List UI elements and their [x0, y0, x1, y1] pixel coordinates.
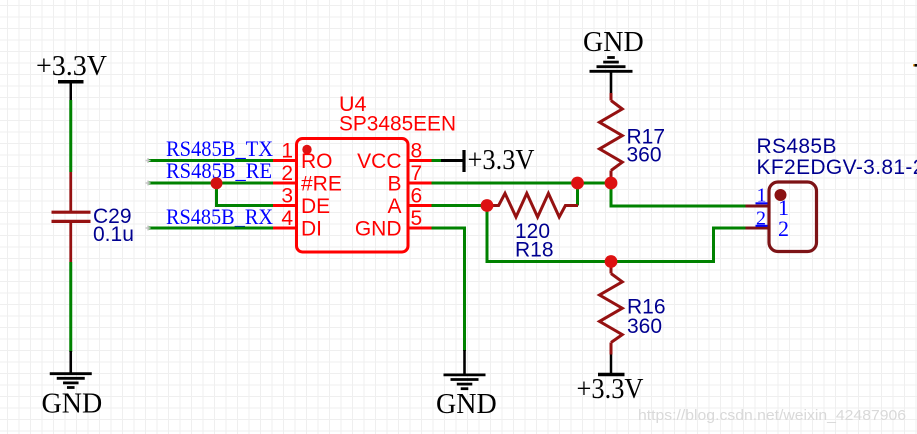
svg-text:DI: DI: [301, 218, 322, 241]
resistor R18 120: [493, 193, 578, 261]
ground (top, above R17): [583, 27, 644, 93]
pin 5 stub: [409, 227, 432, 230]
resistor R16 360: [600, 262, 666, 355]
pin 7 stub: [409, 182, 432, 185]
pin 4 stub: [273, 227, 296, 230]
wire: [69, 262, 72, 352]
svg-text:RO: RO: [301, 150, 333, 173]
svg-text:+3.3V: +3.3V: [577, 374, 644, 405]
connector pin 1 stub: [746, 205, 770, 208]
wire: [148, 227, 274, 230]
wire: [148, 182, 274, 185]
svg-text:7: 7: [411, 162, 423, 185]
svg-text:#RE: #RE: [301, 173, 342, 196]
wire B line down to connector pin 1: [611, 183, 746, 206]
wire end marker: [146, 158, 151, 163]
pin number 1 (outside): [756, 185, 768, 207]
wire: [148, 159, 274, 162]
wire: [576, 183, 579, 206]
ground (bottom left): [42, 351, 103, 420]
svg-text:4: 4: [281, 207, 293, 230]
svg-text:6: 6: [411, 185, 423, 208]
junction B line / R17: [605, 177, 618, 190]
svg-text:2: 2: [778, 216, 789, 241]
svg-text:5: 5: [411, 207, 423, 230]
svg-text:GND: GND: [583, 27, 644, 58]
svg-text:1: 1: [281, 140, 293, 163]
IC U4 SP3485EEN body: [297, 139, 409, 253]
svg-text:SP3485EEN: SP3485EEN: [339, 112, 456, 136]
svg-text:DE: DE: [301, 195, 330, 218]
wire pin5 to ground: [432, 228, 465, 351]
pin number 2 (outside): [756, 208, 768, 230]
wire: [217, 183, 275, 206]
wire end marker: [146, 181, 151, 186]
svg-text:R18: R18: [515, 239, 554, 262]
junction B line / R18: [571, 177, 584, 190]
svg-text:3: 3: [281, 185, 293, 208]
pin-1 indicator dot: [302, 145, 311, 154]
capacitor C29: [52, 172, 134, 262]
wire end marker: [146, 226, 151, 231]
clipped symbol at right edge: [913, 64, 915, 66]
wire pin8 to +3.3V: [432, 159, 442, 162]
svg-text:360: 360: [627, 144, 662, 167]
svg-text:8: 8: [411, 140, 423, 163]
power +3.3V (pin 8): [464, 145, 535, 176]
junction A line / R18: [481, 199, 494, 212]
svg-text:https://blog.csdn.net/weixin_4: https://blog.csdn.net/weixin_42487906: [638, 407, 906, 424]
svg-text:+3.3V: +3.3V: [36, 51, 107, 82]
svg-text:360: 360: [627, 315, 662, 338]
svg-text:+3.3V: +3.3V: [468, 145, 535, 176]
wire lower bus: [487, 206, 746, 262]
svg-text:GND: GND: [355, 218, 402, 241]
svg-text:RS485B_RX: RS485B_RX: [166, 204, 273, 229]
pin 8 stub: [409, 159, 432, 162]
svg-text:GND: GND: [42, 389, 103, 420]
svg-text:GND: GND: [436, 389, 497, 420]
pin 6 stub: [409, 204, 432, 207]
svg-text:VCC: VCC: [357, 150, 401, 173]
wire B line: [432, 182, 612, 185]
wire: [69, 100, 72, 172]
svg-text:RS485B: RS485B: [757, 135, 837, 158]
svg-text:B: B: [387, 173, 401, 196]
svg-text:2: 2: [281, 162, 293, 185]
junction on RS485B_RE wire: [211, 177, 223, 189]
resistor R17 360: [600, 93, 666, 179]
wire A line: [432, 204, 488, 207]
connector pin 2 stub: [746, 227, 770, 230]
pin 1 stub: [273, 159, 296, 162]
svg-text:A: A: [387, 195, 401, 218]
svg-text:0.1u: 0.1u: [93, 223, 134, 246]
power +3.3V (bottom): [577, 355, 644, 406]
junction lower bus / R16: [605, 255, 618, 268]
pin 3 stub: [273, 204, 296, 207]
connector J RS485B KF2EDGV-3.81-2P: [757, 135, 917, 252]
power +3.3V (top left): [36, 51, 107, 101]
pin 2 stub: [273, 182, 296, 185]
svg-text:KF2EDGV-3.81-2P: KF2EDGV-3.81-2P: [757, 156, 917, 179]
ground (bottom center): [436, 350, 497, 420]
